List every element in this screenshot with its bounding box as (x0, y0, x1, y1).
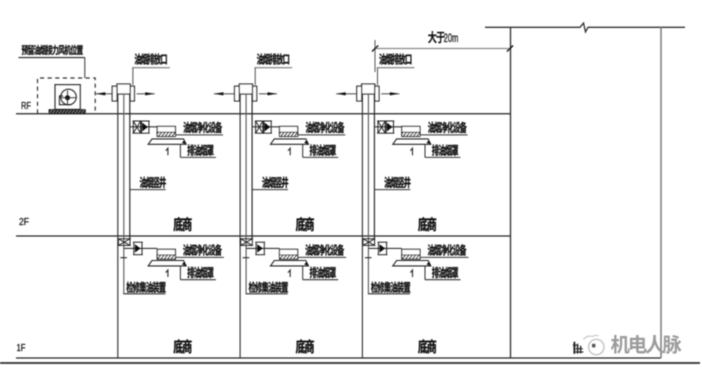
riser end cap tick (243, 257, 250, 259)
label 油烟净化设备 (176, 134, 224, 136)
riser end cap tick (365, 257, 372, 259)
second level purification equipment box (402, 249, 420, 259)
discharge arrow right (381, 93, 399, 95)
label 油烟排放口 (257, 53, 289, 64)
shaft right wall (251, 94, 253, 239)
roof level branch duct line (252, 126, 279, 128)
airflow tick (410, 270, 412, 277)
label 排油烟罩 (302, 145, 304, 158)
floor line 1F (16, 357, 661, 359)
fan volute (59, 96, 71, 105)
label 油烟竖井 (130, 189, 166, 191)
discharge arrow right (259, 93, 277, 95)
check valve (133, 242, 143, 255)
airflow tick (288, 270, 290, 277)
check valve (378, 242, 388, 255)
fire damper (X) (377, 121, 386, 133)
second level fire damper on shaft (X) (240, 239, 253, 246)
shaft right wall (373, 94, 375, 239)
riser duct line (245, 94, 247, 294)
dimension text 大于20m (428, 31, 445, 43)
stack right flange (253, 86, 257, 101)
label 排油烟罩 (179, 266, 181, 280)
airflow tick (288, 148, 290, 155)
dimension line >20m (375, 48, 510, 50)
discharge arrow right (137, 93, 155, 95)
fan hub with centerlines (65, 95, 70, 100)
check valve (141, 121, 150, 133)
stack left flange (357, 86, 362, 101)
label 油烟净化设备 (298, 134, 346, 136)
exhaust stack cap (239, 84, 252, 94)
exhaust hood (271, 261, 309, 266)
discharge arrow left (96, 93, 112, 95)
label 油烟净化设备 (420, 134, 468, 136)
shaft left wall (117, 94, 119, 358)
roof level branch duct line (374, 126, 401, 128)
discharge arrow left (336, 93, 356, 95)
airflow tick (410, 148, 412, 155)
label 油烟排放口 (379, 53, 411, 64)
exhaust hood (148, 139, 186, 144)
label 油烟排放口 (135, 53, 167, 64)
second level fire damper on shaft (X) (362, 239, 375, 246)
riser duct line (123, 94, 125, 294)
second level branch duct line (124, 247, 157, 249)
leader to fan dashed box (84, 58, 86, 78)
label 底商 lower (418, 339, 436, 353)
fan dashed reserve box (38, 78, 96, 114)
label 油烟净化设备 (420, 256, 469, 258)
airflow tick (166, 148, 168, 155)
label 检修集油装置 (368, 293, 410, 295)
label 底商 lower (296, 339, 314, 353)
watermark icon circle mascot (589, 339, 604, 354)
fire damper (X) (133, 121, 142, 133)
label 油烟竖井 (252, 189, 288, 191)
second level branch duct line (246, 247, 279, 249)
fan U0 outer casing (55, 85, 80, 110)
label 排油烟罩 (424, 145, 426, 158)
svg-text:20m: 20m (444, 31, 459, 45)
airflow tick (166, 270, 168, 277)
svg-text:1F: 1F (17, 342, 26, 354)
roof level purification equipment box (157, 126, 175, 136)
label 油烟净化设备 (175, 256, 224, 258)
exhaust stack cap (362, 84, 375, 94)
watermark text 机电人脉 (611, 335, 682, 354)
stack left flange (235, 86, 240, 101)
label 检修集油装置 (123, 293, 165, 295)
roof level purification equipment box (280, 126, 298, 136)
watermark icon dark mark (573, 342, 584, 354)
check valve (385, 121, 394, 133)
second level fire damper on shaft (X) (118, 239, 131, 246)
svg-text:2F: 2F (19, 216, 29, 228)
ground line (0, 362, 700, 364)
fan base pad (hatched) (49, 110, 85, 114)
shaft left wall (239, 94, 241, 358)
label 检修集油装置 (246, 293, 288, 295)
check valve (255, 242, 265, 255)
exhaust hood (148, 261, 186, 266)
shaft right wall (129, 94, 131, 239)
label 底商 upper (174, 217, 192, 231)
stack right flange (130, 86, 134, 101)
discharge arrow left (214, 93, 234, 95)
exhaust hood (271, 139, 309, 144)
label 底商 upper (418, 217, 436, 231)
label 排油烟罩 (302, 266, 304, 280)
label: reserved relay fan position 预留油烟接力风机位置 (22, 45, 83, 55)
roof level purification equipment box (402, 126, 420, 136)
exhaust hood (393, 139, 431, 144)
second level purification equipment box (280, 249, 298, 259)
tall building right wall (660, 27, 662, 358)
stack left flange (112, 86, 117, 101)
riser duct line (367, 94, 369, 294)
shaft left wall (361, 94, 363, 358)
stack right flange (375, 86, 379, 101)
label 排油烟罩 (179, 145, 181, 158)
exhaust hood (393, 261, 431, 266)
label 底商 lower (174, 339, 192, 353)
label 油烟竖井 (374, 189, 410, 191)
label 油烟净化设备 (298, 256, 347, 258)
second level branch duct line (368, 247, 401, 249)
fan impeller circle (61, 89, 77, 105)
roof floor line RF (16, 113, 510, 115)
fire damper (X) (255, 121, 264, 133)
svg-text:RF: RF (21, 100, 31, 112)
second level purification equipment box (157, 249, 175, 259)
tall building top line with break symbol (485, 23, 685, 32)
check valve (263, 121, 272, 133)
floor line 2F (16, 235, 510, 237)
label 排油烟罩 (424, 266, 426, 280)
riser end cap tick (120, 257, 127, 259)
exhaust stack cap (117, 84, 130, 94)
roof level branch duct line (130, 126, 157, 128)
label 底商 upper (296, 217, 314, 231)
tall building left wall (510, 27, 512, 358)
